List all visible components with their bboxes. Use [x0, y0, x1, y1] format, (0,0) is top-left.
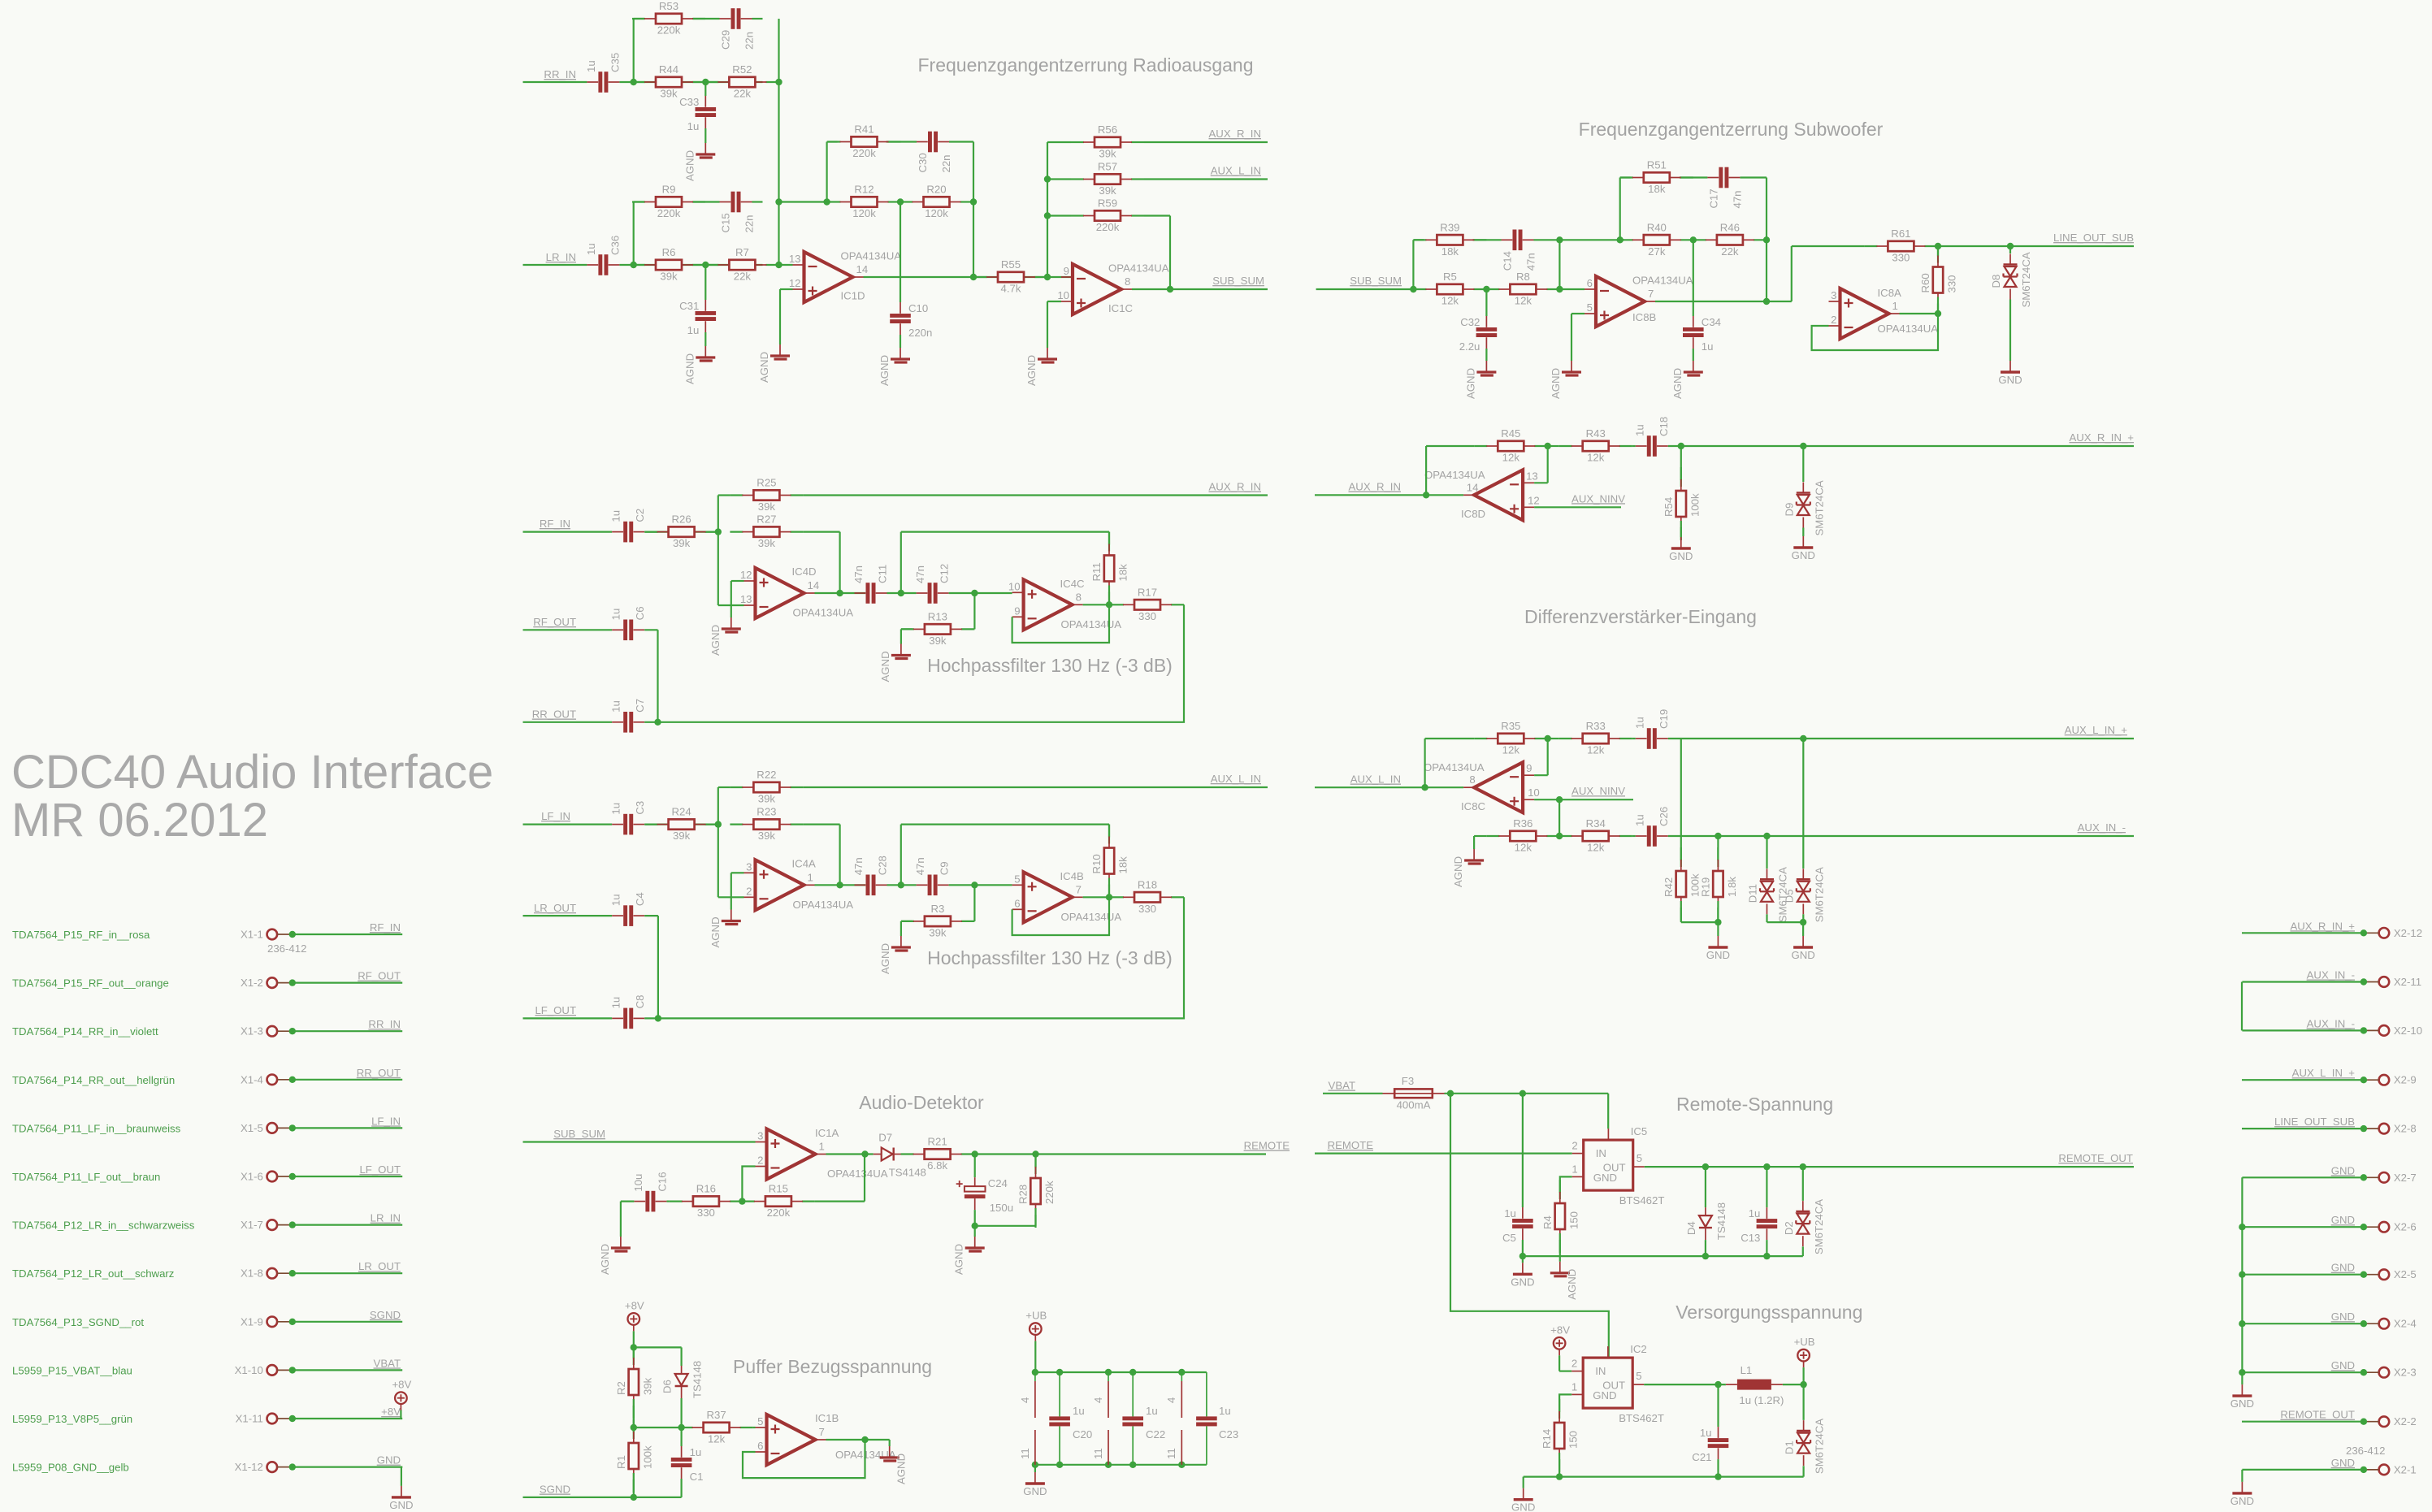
svg-text:1u: 1u	[1219, 1405, 1231, 1417]
svg-text:TDA7564_P14_RR_out__hellgrün: TDA7564_P14_RR_out__hellgrün	[12, 1074, 175, 1086]
node	[2239, 1272, 2245, 1278]
wire	[1705, 1167, 1706, 1207]
node	[739, 1198, 745, 1204]
op-amp IC4A	[744, 857, 854, 911]
op-amp IC1B	[756, 1412, 896, 1465]
capacitor C12	[914, 564, 951, 604]
svg-text:OPA4134UA: OPA4134UA	[827, 1168, 888, 1180]
svg-text:LR_OUT: LR_OUT	[358, 1260, 401, 1272]
svg-text:R26: R26	[671, 513, 691, 526]
svg-text:Frequenzgangentzerrung Radioau: Frequenzgangentzerrung Radioausgang	[917, 54, 1253, 76]
svg-text:X1-6: X1-6	[241, 1171, 263, 1183]
svg-text:R1: R1	[615, 1455, 627, 1469]
wire	[1680, 901, 1682, 922]
svg-text:AGND: AGND	[683, 150, 696, 181]
svg-text:AGND: AGND	[1464, 368, 1476, 399]
svg-text:C29: C29	[720, 30, 732, 50]
node	[1935, 310, 1941, 317]
svg-text:IC2: IC2	[1630, 1343, 1647, 1355]
ground GND	[1511, 1488, 1535, 1512]
node	[1715, 833, 1721, 839]
svg-text:13: 13	[789, 253, 801, 265]
capacitor C31	[679, 300, 716, 336]
node	[654, 719, 661, 726]
TVS diode D5	[1783, 867, 1825, 922]
wire	[644, 823, 718, 825]
connector pin X1-10	[12, 1364, 296, 1377]
svg-text:2: 2	[757, 1155, 763, 1167]
svg-text:14: 14	[856, 263, 869, 275]
wire net AUX_L_IN_+	[2242, 1079, 2364, 1081]
resistor R33	[1559, 720, 1632, 756]
svg-text:AUX_R_IN_+: AUX_R_IN_+	[2069, 431, 2134, 444]
svg-text:9: 9	[1526, 762, 1532, 774]
ground AGND	[880, 1446, 908, 1484]
svg-text:R8: R8	[1516, 271, 1530, 283]
svg-text:12: 12	[789, 277, 801, 289]
capacitor C16	[632, 1172, 669, 1211]
svg-text:9: 9	[1064, 265, 1069, 277]
wire	[1522, 1256, 1524, 1263]
IC1 supply pin 11	[1034, 1430, 1036, 1465]
svg-text:OPA4134UA: OPA4134UA	[1061, 911, 1122, 923]
supply +UB	[1025, 1310, 1047, 1341]
svg-text:AGND: AGND	[709, 625, 722, 656]
wire	[1523, 1477, 1524, 1488]
svg-text:X1-7: X1-7	[241, 1219, 263, 1231]
feedback	[742, 1167, 755, 1202]
rail	[1524, 1475, 1804, 1477]
wire	[523, 721, 613, 723]
svg-text:47n: 47n	[852, 857, 865, 875]
wire	[1668, 445, 2134, 447]
svg-text:AUX_L_IN_+: AUX_L_IN_+	[2292, 1067, 2356, 1079]
ground GND	[1669, 537, 1693, 562]
node	[702, 262, 709, 268]
rail	[1035, 1371, 1207, 1373]
wire	[1412, 240, 1414, 289]
wire	[1620, 239, 1624, 240]
svg-text:R19: R19	[1699, 877, 1711, 897]
svg-text:1u: 1u	[610, 510, 622, 522]
wire	[1717, 922, 1719, 936]
svg-text:OPA4134UA: OPA4134UA	[1878, 323, 1939, 335]
node	[1800, 1381, 1806, 1388]
ground AGND	[709, 910, 741, 948]
wire	[1802, 446, 1804, 482]
node	[775, 198, 782, 205]
wire	[620, 1202, 622, 1237]
wire	[704, 82, 706, 96]
connector pin X1-3	[12, 1025, 296, 1038]
svg-text:120k: 120k	[925, 207, 948, 219]
wire pin13	[718, 604, 744, 606]
resistor R26	[645, 513, 718, 550]
node	[1106, 894, 1112, 900]
wire net LINE_OUT_SUB	[2242, 1128, 2364, 1129]
wire	[1644, 1384, 1726, 1385]
svg-text:R16: R16	[696, 1183, 716, 1195]
resistor R1	[615, 1419, 654, 1493]
svg-text:AUX_R_IN: AUX_R_IN	[1349, 481, 1402, 493]
wire	[900, 335, 901, 348]
wire	[658, 897, 1184, 1018]
svg-text:C36: C36	[609, 236, 621, 255]
svg-text:C9: C9	[939, 861, 951, 875]
wire net AUX_IN_-	[2242, 1029, 2364, 1031]
svg-text:C7: C7	[634, 699, 646, 713]
node	[1423, 492, 1429, 498]
svg-text:TDA7564_P12_LR_in__schwarzweis: TDA7564_P12_LR_in__schwarzweiss	[12, 1220, 195, 1232]
wire	[1473, 836, 1475, 849]
svg-text:+UB: +UB	[1794, 1336, 1815, 1348]
feedback	[1012, 604, 1109, 643]
capacitor C30	[917, 132, 952, 173]
svg-text:X2-7: X2-7	[2394, 1172, 2417, 1184]
capacitor C3	[610, 801, 647, 835]
svg-text:1u: 1u	[585, 243, 597, 255]
wire	[666, 1200, 670, 1202]
svg-text:R2: R2	[615, 1381, 627, 1395]
svg-text:R24: R24	[671, 806, 691, 818]
svg-text:Versorgungsspannung: Versorgungsspannung	[1676, 1302, 1862, 1323]
svg-text:TDA7564_P11_LF_out__braun: TDA7564_P11_LF_out__braun	[12, 1171, 160, 1183]
svg-text:LF_IN: LF_IN	[371, 1115, 401, 1127]
svg-text:+8V: +8V	[392, 1379, 411, 1391]
resistor R43	[1559, 427, 1632, 464]
svg-text:47n: 47n	[1525, 253, 1537, 271]
wire	[619, 81, 762, 83]
wire	[972, 201, 974, 202]
resistor R27	[730, 513, 803, 550]
node	[823, 198, 830, 205]
wire	[1558, 240, 1560, 289]
wire	[1668, 835, 2134, 837]
wire	[657, 630, 658, 722]
supply +8V	[392, 1379, 411, 1410]
svg-text:GND: GND	[1593, 1389, 1616, 1402]
node	[1106, 601, 1112, 608]
wire	[633, 202, 635, 266]
svg-text:Hochpassfilter 130 Hz (-3 dB): Hochpassfilter 130 Hz (-3 dB)	[927, 655, 1173, 676]
resistor R9	[632, 184, 705, 220]
svg-text:220k: 220k	[657, 24, 681, 37]
wire	[1315, 1152, 1572, 1154]
wire pin5	[1571, 313, 1584, 314]
svg-text:AUX_R_IN_+: AUX_R_IN_+	[2290, 920, 2355, 932]
wire	[973, 628, 976, 630]
svg-text:1u: 1u	[1146, 1405, 1158, 1417]
resistor R28	[1017, 1155, 1056, 1228]
svg-text:SM6T24CA: SM6T24CA	[1813, 1199, 1825, 1254]
rail	[1523, 1255, 1803, 1257]
ground GND	[1023, 1472, 1047, 1497]
wire	[973, 921, 976, 922]
wire pin3	[731, 872, 744, 873]
svg-text:C15: C15	[720, 213, 732, 232]
wire	[1485, 289, 1487, 316]
ground GND	[2230, 1384, 2254, 1410]
wire	[826, 142, 827, 202]
svg-text:L5959_P15_VBAT__blau: L5959_P15_VBAT__blau	[12, 1364, 132, 1376]
wire	[1803, 1466, 1805, 1476]
wire pin13	[779, 264, 793, 266]
svg-text:39k: 39k	[758, 830, 776, 842]
svg-text:LF_OUT: LF_OUT	[535, 1004, 576, 1016]
ground GND	[1998, 361, 2022, 386]
wire	[633, 1428, 635, 1439]
svg-text:C24: C24	[988, 1177, 1008, 1189]
svg-text:5: 5	[1014, 873, 1020, 885]
svg-text:F3: F3	[1402, 1075, 1414, 1087]
wire	[864, 276, 1073, 278]
svg-text:1.8k: 1.8k	[1726, 877, 1738, 897]
wire	[634, 1427, 680, 1428]
svg-text:1u: 1u	[610, 700, 622, 713]
wire	[1620, 176, 1631, 178]
svg-text:1u: 1u	[1504, 1207, 1516, 1220]
resistor R25	[730, 477, 803, 513]
wire	[1169, 216, 1171, 290]
wire	[523, 1497, 682, 1498]
capacitor C36	[585, 236, 622, 275]
wire	[1558, 1453, 1560, 1477]
wire	[975, 1225, 1036, 1227]
svg-text:R57: R57	[1098, 161, 1117, 173]
wire	[680, 1479, 682, 1497]
wire	[644, 721, 657, 723]
node	[1556, 833, 1563, 839]
wire	[1558, 799, 1560, 836]
wire	[644, 1017, 658, 1019]
svg-text:IC4B: IC4B	[1060, 870, 1085, 882]
capacitor C1	[671, 1446, 704, 1483]
node	[1800, 443, 1806, 449]
node	[1410, 286, 1416, 292]
wire	[815, 1200, 865, 1202]
fuse F3	[1383, 1075, 1445, 1111]
svg-text:C11: C11	[877, 565, 889, 583]
resistor R19	[1699, 847, 1738, 921]
wire	[644, 629, 657, 630]
svg-text:R52: R52	[732, 63, 752, 76]
node	[972, 1150, 978, 1157]
wire net LF_IN	[293, 1127, 402, 1129]
svg-text:3: 3	[1831, 289, 1836, 301]
svg-text:X2-10: X2-10	[2394, 1025, 2422, 1037]
svg-text:220k: 220k	[852, 147, 876, 159]
wire	[523, 531, 613, 532]
node	[898, 590, 904, 596]
svg-text:Puffer Bezugsspannung: Puffer Bezugsspannung	[733, 1356, 932, 1377]
op-amp IC8B	[1584, 275, 1693, 327]
wire	[1802, 1246, 1804, 1256]
wire	[2241, 1470, 2243, 1482]
svg-text:GND: GND	[377, 1454, 401, 1467]
wire	[803, 823, 839, 825]
resistor R11	[1090, 532, 1129, 605]
connector pin X1-7	[12, 1219, 296, 1232]
supply +UB	[1794, 1336, 1815, 1367]
svg-text:150: 150	[1567, 1211, 1580, 1229]
svg-text:GND: GND	[1791, 949, 1814, 961]
wire	[1607, 1094, 1609, 1129]
svg-text:5: 5	[1587, 301, 1593, 314]
wire	[633, 1347, 635, 1365]
ground AGND	[1464, 361, 1496, 399]
svg-text:LF_IN: LF_IN	[541, 810, 570, 822]
capacitor C21	[1692, 1427, 1728, 1463]
svg-text:R14: R14	[1541, 1429, 1553, 1449]
svg-text:GND: GND	[2331, 1262, 2355, 1274]
svg-text:C19: C19	[1658, 709, 1670, 729]
svg-text:D5: D5	[1783, 889, 1795, 903]
node	[1545, 735, 1551, 742]
svg-text:C34: C34	[1702, 316, 1721, 328]
wire	[1632, 738, 1636, 739]
svg-text:R21: R21	[927, 1136, 947, 1148]
svg-text:GND: GND	[2230, 1397, 2254, 1410]
svg-text:X1-9: X1-9	[241, 1315, 263, 1328]
wire	[901, 628, 913, 630]
wire	[633, 1399, 635, 1428]
svg-text:39k: 39k	[673, 830, 691, 842]
svg-text:1u: 1u	[1700, 1427, 1712, 1439]
svg-text:AUX_L_IN: AUX_L_IN	[1211, 165, 1261, 177]
svg-text:RF_OUT: RF_OUT	[533, 616, 576, 628]
svg-text:4: 4	[1165, 1397, 1177, 1403]
svg-text:10: 10	[1008, 580, 1021, 592]
rail	[1035, 1464, 1207, 1466]
resistor R44	[632, 63, 705, 100]
node	[631, 1424, 637, 1431]
wire	[718, 494, 730, 496]
wire	[523, 1017, 613, 1019]
svg-text:400mA: 400mA	[1397, 1098, 1431, 1111]
svg-text:RF_OUT: RF_OUT	[358, 970, 401, 982]
svg-text:GND: GND	[2331, 1359, 2355, 1371]
svg-text:D11: D11	[1747, 884, 1759, 903]
connector pin X2-5	[2360, 1268, 2417, 1280]
svg-text:D8: D8	[1990, 275, 2002, 288]
wire	[1047, 141, 1071, 143]
wire	[1632, 445, 1636, 447]
svg-text:6: 6	[1014, 897, 1020, 909]
wire	[1766, 178, 1767, 240]
wire	[633, 19, 635, 82]
wire	[974, 1153, 1266, 1155]
svg-text:AGND: AGND	[758, 352, 770, 383]
svg-text:+8V: +8V	[625, 1299, 644, 1311]
svg-text:AUX_IN_-: AUX_IN_-	[2307, 969, 2355, 981]
wire	[864, 1155, 865, 1202]
connector pin X2-7	[2360, 1172, 2417, 1184]
connector pin X1-5	[12, 1122, 296, 1135]
resistor R16	[670, 1183, 743, 1220]
svg-text:D1: D1	[1784, 1441, 1796, 1454]
wire	[1559, 288, 1584, 290]
svg-text:X1-4: X1-4	[241, 1073, 263, 1085]
TVS diode D8	[1990, 252, 2032, 307]
resistor R61	[1864, 227, 1937, 264]
ground AGND	[683, 346, 715, 384]
node	[1056, 1369, 1063, 1376]
svg-text:1u: 1u	[687, 120, 700, 132]
svg-text:R42: R42	[1663, 877, 1675, 897]
wire	[1534, 506, 1621, 508]
resistor R57	[1071, 161, 1144, 197]
wire	[1547, 738, 1558, 739]
svg-text:D9: D9	[1783, 503, 1795, 517]
wire	[619, 264, 762, 266]
capacitor C18	[1633, 417, 1670, 457]
connector pin X2-12	[2360, 927, 2422, 939]
node	[1800, 735, 1806, 742]
wire	[1485, 349, 1487, 361]
node	[1545, 443, 1551, 449]
svg-text:2: 2	[1831, 314, 1836, 326]
svg-text:IC1A: IC1A	[815, 1127, 839, 1139]
ground AGND	[879, 644, 911, 682]
wire	[753, 1427, 756, 1428]
svg-text:C2: C2	[634, 509, 646, 522]
wire	[1559, 239, 1619, 240]
svg-text:CDC40 Audio Interface: CDC40 Audio Interface	[11, 746, 493, 799]
svg-text:AGND: AGND	[1025, 355, 1038, 386]
IC IC5 BTS462T	[1571, 1125, 1664, 1207]
svg-text:R43: R43	[1586, 427, 1606, 440]
svg-text:TS4148: TS4148	[691, 1361, 704, 1398]
connector pin X2-4	[2360, 1318, 2417, 1330]
svg-text:GND: GND	[2230, 1495, 2254, 1507]
wire out	[815, 592, 866, 594]
wire	[658, 604, 1185, 722]
wire	[1693, 349, 1694, 361]
resistor R42	[1663, 847, 1702, 921]
wire	[1534, 799, 1633, 800]
svg-text:GND: GND	[1511, 1276, 1534, 1288]
op-amp IC4D	[740, 565, 853, 619]
ground AGND	[709, 617, 741, 656]
wire	[1445, 1093, 1609, 1094]
svg-text:1: 1	[1571, 1380, 1577, 1393]
wire	[889, 1440, 891, 1446]
capacitor C32	[1459, 316, 1497, 353]
node	[1129, 1369, 1136, 1376]
svg-text:IC8A: IC8A	[1878, 287, 1902, 299]
resistor R14	[1541, 1399, 1580, 1472]
connector pin X2-3	[2360, 1367, 2417, 1379]
resistor R23	[730, 806, 803, 843]
node	[1519, 1090, 1526, 1097]
wire net GND	[2242, 1176, 2364, 1178]
svg-text:R28: R28	[1017, 1185, 1030, 1204]
svg-text:TDA7564_P14_RR_in__violett: TDA7564_P14_RR_in__violett	[12, 1025, 158, 1038]
svg-text:REMOTE_OUT: REMOTE_OUT	[2058, 1152, 2133, 1164]
svg-text:C35: C35	[609, 53, 621, 72]
connector pin X2-8	[2360, 1123, 2417, 1135]
svg-text:5: 5	[1636, 1370, 1641, 1382]
resistor R46	[1693, 221, 1767, 258]
svg-text:R11: R11	[1090, 562, 1103, 581]
wire	[1034, 1465, 1036, 1472]
svg-text:330: 330	[1946, 275, 1958, 292]
svg-text:+UB: +UB	[1025, 1310, 1047, 1322]
svg-text:X2-4: X2-4	[2394, 1318, 2417, 1330]
wire net VBAT	[293, 1369, 402, 1371]
wire	[1108, 586, 1110, 605]
IC IC2 BTS462T	[1571, 1343, 1664, 1424]
